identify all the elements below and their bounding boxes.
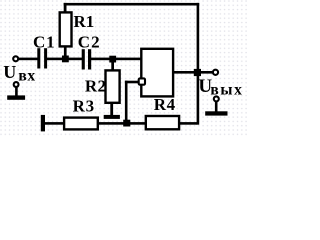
wire: top feedback rail from R1 top to right vertical <box>64 3 200 6</box>
wire: input wire from terminal to C1 <box>17 58 39 61</box>
svg-text:R2: R2 <box>85 77 106 96</box>
wire: C1 to C2 segment through node A <box>47 58 83 61</box>
op-amp U1 rectangle <box>141 49 173 97</box>
junction node A (C1-C2-R1) <box>62 56 69 63</box>
resistor R3 <box>64 118 98 130</box>
ground tick at R3 left end <box>41 115 45 131</box>
capacitor C1 left plate <box>37 48 40 68</box>
svg-text:вх: вх <box>18 68 35 85</box>
wire: R1 top stub <box>64 3 67 13</box>
wire: R3 to R4 segment through inverting node <box>98 122 146 125</box>
wire: C2 to op-amp noninverting input <box>91 58 143 61</box>
capacitor C2 right plate <box>88 49 91 69</box>
wire: inverting input horizontal <box>125 81 139 84</box>
resistor R1 <box>60 12 72 46</box>
svg-text:C2: C2 <box>78 32 101 51</box>
wire: bottom left from ground tick to R3 <box>44 122 64 125</box>
svg-text:C1: C1 <box>33 32 55 51</box>
wire: R2 top stub <box>111 59 114 71</box>
background halftone dots <box>0 0 249 136</box>
svg-text:U: U <box>3 62 16 82</box>
svg-text:R3: R3 <box>73 96 95 115</box>
junction inverting node on bottom wire <box>123 120 130 127</box>
svg-text:R1: R1 <box>74 12 95 31</box>
ground stub below output terminal <box>215 102 218 112</box>
output ground terminal circle <box>214 96 219 101</box>
output terminal circle <box>213 70 218 75</box>
op-amp inverting input bubble <box>139 78 145 84</box>
ground bar output <box>205 111 227 115</box>
svg-text:вых: вых <box>210 82 243 99</box>
junction node B (C2-R2 tap) <box>109 56 116 63</box>
resistor R4 <box>146 116 179 129</box>
ground bar input <box>7 95 25 99</box>
wire: inverting input vertical down to bottom node <box>125 81 128 125</box>
wire: op-amp output to output terminal <box>174 71 214 74</box>
ground bar under R2 <box>104 115 120 119</box>
wire: R2 bottom stub <box>110 103 113 116</box>
ground stub below input terminal <box>15 87 18 95</box>
input terminal circle <box>13 56 18 61</box>
wire: R4 to right vertical <box>180 122 198 125</box>
resistor R2 <box>106 70 120 102</box>
junction output node <box>194 69 201 76</box>
wire: right vertical feedback line <box>197 3 200 125</box>
wire: R1 bottom stub <box>64 46 67 60</box>
capacitor C1 right plate <box>44 48 47 68</box>
svg-text:R4: R4 <box>154 95 176 114</box>
capacitor C2 left plate <box>82 49 85 69</box>
input ground terminal circle <box>14 82 19 87</box>
